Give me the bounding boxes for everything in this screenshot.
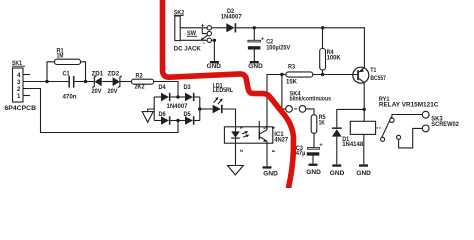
svg-text:R2: R2 [136,72,143,79]
diode D3 1N4007 (bridge) [184,84,195,101]
pin 4 stub IC1 [267,143,276,166]
svg-text:D5: D5 [184,111,192,118]
connector SK3 SCREW02 [422,111,459,131]
resistor R5 1K [311,114,326,133]
svg-text:15K: 15K [286,79,298,86]
resistor R2 2K2 [132,72,154,90]
ground GND under D1 [330,164,345,177]
wire ZD2 to R2 [120,81,132,83]
node R4 bottom junction [321,73,324,76]
svg-text:1K: 1K [319,119,326,126]
wire ZD1 to ZD2 [102,81,113,83]
wire R5 to C3 [313,133,315,147]
wire tip terminal to D2 [212,27,227,29]
zener diode ZD2 20V [108,70,122,95]
pin 2 stub IC1 [236,143,245,165]
svg-text:GND: GND [306,169,321,176]
svg-text:SCREW02: SCREW02 [431,121,459,128]
zener diode ZD1 20V [92,70,104,95]
diode D1 1N4148 [332,127,364,164]
node sleeve junction [213,39,216,42]
wire C1 to ZD1 [74,81,95,83]
ground earth symbol at bridge left [142,109,154,122]
svg-text:RELAY VR15M121C: RELAY VR15M121C [379,101,439,108]
wire SK1 pin2 down and along bottom to bridge [23,89,178,133]
connector SK1 6P4CPCB [5,60,37,112]
wire jack tip to terminal [180,27,207,29]
svg-text:2K2: 2K2 [135,84,145,91]
svg-text:4N27: 4N27 [274,136,289,143]
LED LD1 LED5RL [213,82,234,113]
wire relay throw to SK3 top [392,115,422,119]
svg-text:100K: 100K [327,55,341,62]
svg-text:D4: D4 [159,84,167,91]
highlight annotation red path [163,0,294,191]
wire T1 collector down to relay coil [363,83,365,122]
svg-text:R3: R3 [288,64,295,71]
svg-text:GND: GND [356,170,371,177]
svg-text:ZD2: ZD2 [108,70,120,77]
pin 6 stub IC1 [259,121,267,130]
node R4 top junction [321,26,324,29]
diode D2 1N4007 [221,8,243,32]
svg-text:1N4007: 1N4007 [167,103,189,110]
svg-text:D3: D3 [184,84,192,91]
diode D5 1N4007 (bridge) [184,111,195,125]
svg-text:GND: GND [263,171,278,178]
pin 4 stub [23,74,30,76]
svg-text:T1: T1 [370,67,376,74]
diode D4 1N4007 (bridge) [159,84,171,101]
svg-text:4: 4 [17,72,21,79]
svg-text:1N4148: 1N4148 [342,141,364,148]
wire relay terminal to SK3 bottom [399,128,423,148]
svg-text:20V: 20V [92,88,103,95]
diode D6 1N4007 (bridge) [159,111,171,125]
wire jack sleeve [180,39,207,41]
node bridge top middle [176,95,179,98]
wire sleeve to gnd [212,40,215,61]
node R1 left junction [45,80,48,83]
wire SK4 to R5 [306,109,314,115]
svg-text:2: 2 [239,150,244,153]
svg-text:6P4CPCB: 6P4CPCB [5,105,37,112]
transistor T1 BC557 [353,67,387,83]
relay contact terminal circle [397,135,401,139]
svg-text:BC557: BC557 [370,75,386,82]
svg-text:D6: D6 [159,111,167,118]
capacitor C3 47u [296,143,324,164]
resistor R3 15K [286,64,313,86]
relay contact lever [382,117,392,137]
wire D2 to T1 emitter (top rail) [236,28,364,68]
wire bridge left side [153,97,155,121]
terminal circle sleeve [207,38,211,42]
svg-text:GND: GND [207,63,222,70]
svg-text:-: - [203,40,205,47]
svg-text:2: 2 [17,86,21,93]
relay RY1 coil [350,96,439,164]
svg-text:DC JACK: DC JACK [174,45,202,52]
svg-text:47µ: 47µ [296,150,306,157]
wire R2 to bridge top node [154,82,178,98]
ground GND under SK2 [207,61,222,70]
relay contact throw circle top [390,118,394,122]
svg-text:5: 5 [271,127,276,130]
terminal circle tip [207,26,211,30]
wire bridge bottom row [154,120,161,122]
svg-text:ZD1: ZD1 [92,70,104,77]
svg-text:GND: GND [330,170,345,177]
svg-text:100µ/25V: 100µ/25V [266,44,291,51]
node R1 right junction [84,80,87,83]
mechanical link dotted [377,127,383,129]
svg-text:blink/continuous: blink/continuous [290,95,332,102]
svg-text:6: 6 [262,127,267,130]
ground earth symbol IC1 pin2 [228,166,244,175]
svg-text:20V: 20V [108,88,119,95]
svg-text:C1: C1 [63,70,70,77]
connector SK2 DC JACK [174,9,205,52]
svg-text:1: 1 [239,127,244,130]
svg-text:LED5RL: LED5RL [213,87,234,94]
node D1 junction on collector [363,108,366,111]
wire bridge output to LD1 [200,108,213,110]
optocoupler IC1 4N27 [224,127,288,144]
node bridge bottom middle [176,119,179,122]
ground GND under relay coil [356,164,371,177]
capacitor C2 100u/25V [248,28,291,61]
svg-text:3: 3 [17,79,21,86]
node bridge right output [198,107,201,110]
wire bridge right side [199,97,201,121]
capacitor C1 470n [63,70,77,100]
wire SK1 pin3 to C1 left plate (main AC line) [23,81,69,83]
connector SK4 blink/continuous jumper [286,91,332,113]
ground GND under C2 [248,61,263,70]
pin 1 stub [23,95,30,97]
ground GND IC1 pin4 [263,166,279,177]
svg-text:4: 4 [271,150,276,153]
wire R3 to T1 base [313,74,357,76]
wire SK4 branch down to jumper [282,75,286,109]
node C2 junction [253,26,256,29]
svg-text:1: 1 [17,93,21,100]
switch SW of jack [187,28,212,41]
ground GND under C3 [306,164,321,177]
resistor R4 100K [320,28,341,75]
wire LD1 to IC1 pin1 [223,109,236,127]
node SK4 branch on R3 line [280,73,283,76]
svg-text:1N4007: 1N4007 [221,13,243,20]
relay contact pivot circle [381,137,385,141]
wire collector node to D1 [337,109,364,127]
resistor R1 1M [47,47,86,81]
wire bridge top row [154,96,161,98]
svg-text:470n: 470n [63,94,77,101]
wire IC1 pin5 up to R3 line [267,75,286,127]
svg-text:1M: 1M [57,53,64,60]
svg-text:GND: GND [248,63,263,70]
